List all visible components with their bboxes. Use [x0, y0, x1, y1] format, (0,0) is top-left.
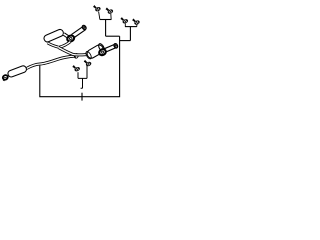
left pair drop [105, 20, 107, 37]
bolt A1 stem [99, 12, 100, 20]
hanger ring [74, 53, 79, 59]
catalyst inlet end cap [85, 51, 93, 60]
fastener bracket: left pair join [100, 19, 111, 21]
bolt B1 stem [124, 24, 126, 27]
right pair shelf [120, 40, 131, 42]
U bracket for middle bolts [78, 65, 87, 88]
tailpipe tip [2, 74, 9, 81]
downpipe to catalyst [59, 48, 86, 55]
bolt C2 [84, 60, 92, 67]
bolt A1 [93, 5, 101, 12]
resonator [7, 65, 27, 78]
rear stub open end [113, 43, 118, 49]
bolt A2 stem [110, 14, 112, 20]
front stub open end [81, 25, 87, 31]
bolt B2 [133, 19, 141, 26]
bottom bracket leader [40, 36, 120, 96]
clamp tick at pipe junction [74, 54, 77, 57]
catalyst outlet ring [97, 43, 105, 53]
bolt C1 [73, 65, 81, 72]
right pair drop [129, 27, 131, 41]
bolt B1 [121, 18, 129, 25]
fastener bracket: right pair join [125, 26, 137, 28]
front stub pipe [73, 28, 85, 36]
bolt B2 stem [136, 25, 138, 27]
rear stub pipe [105, 46, 116, 51]
catalytic converter [86, 44, 105, 60]
resonator pipe [27, 56, 76, 69]
pairs joining bar [106, 35, 120, 37]
muffler [43, 28, 64, 43]
bolt A2 [106, 8, 114, 15]
downpipe from donut down-left [59, 42, 70, 48]
muffler underside pipe [48, 43, 59, 47]
muffler neck [64, 34, 69, 37]
front donut gasket [66, 34, 75, 42]
leader tick [81, 93, 83, 101]
rear donut gasket [98, 48, 107, 56]
